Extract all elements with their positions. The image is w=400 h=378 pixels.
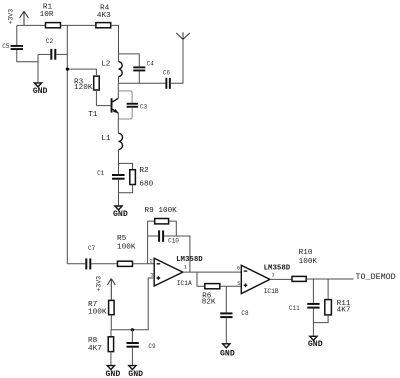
transistor T1 — [88, 98, 118, 119]
ground GND6 — [220, 344, 235, 359]
svg-text:GND: GND — [220, 350, 235, 359]
ground GND7 — [308, 336, 323, 349]
wire R6 to pin5 — [220, 285, 242, 287]
svg-text:C3: C3 — [140, 103, 148, 110]
svg-text:7: 7 — [272, 272, 275, 279]
svg-text:GND: GND — [308, 340, 323, 349]
wire R3 top leg — [67, 69, 96, 76]
capacitor C9 — [127, 330, 157, 366]
svg-text:100K: 100K — [88, 309, 107, 317]
node junction dot (R7/R8/C9/pin3) — [131, 328, 134, 331]
wire long vertical bus x=67.3 — [66, 25, 68, 263]
svg-text:R10: R10 — [299, 249, 313, 257]
svg-text:680: 680 — [139, 181, 153, 189]
feedback left leg — [147, 221, 149, 264]
svg-text:4K7: 4K7 — [88, 345, 102, 353]
wire pin3 branch — [111, 278, 154, 330]
svg-text:+3V3: +3V3 — [8, 9, 15, 25]
svg-text:TO_DEMOD: TO_DEMOD — [356, 272, 396, 282]
svg-text:2: 2 — [150, 257, 153, 264]
svg-text:C8: C8 — [241, 310, 249, 317]
svg-text:GND: GND — [128, 370, 143, 378]
svg-text:GND: GND — [33, 87, 48, 96]
capacitor C11 — [289, 279, 320, 336]
wire emitter down — [117, 113, 119, 133]
wire rail R1 to R4 — [61, 24, 96, 26]
svg-text:6: 6 — [237, 265, 240, 272]
svg-text:IC1A: IC1A — [177, 280, 192, 287]
svg-text:R8: R8 — [88, 337, 98, 345]
ground GND2 — [113, 206, 128, 219]
svg-text:C11: C11 — [289, 305, 300, 312]
svg-text:C1: C1 — [97, 170, 105, 177]
inductor L2 — [101, 54, 122, 83]
svg-text:C10: C10 — [168, 237, 179, 244]
svg-text:C4: C4 — [147, 61, 155, 68]
wire tank top to C4 — [119, 54, 140, 67]
wire IC1A out to IC1B pin6 — [183, 271, 242, 273]
resistor R1 — [40, 4, 61, 28]
wire C6 to antenna — [171, 39, 183, 83]
wire R6 left leg — [197, 272, 205, 286]
resistor R2 — [130, 167, 154, 189]
svg-text:C9: C9 — [148, 343, 156, 350]
resistor R3 — [74, 76, 99, 92]
svg-text:T1: T1 — [88, 111, 98, 119]
capacitor C1 — [97, 163, 125, 206]
ground GND5 — [128, 366, 143, 378]
resistor R9 — [145, 207, 178, 236]
wire R3 bottom leg — [95, 90, 97, 106]
svg-text:GND: GND — [113, 210, 128, 219]
resistor R5 — [117, 235, 136, 266]
wire top rail left — [17, 24, 46, 26]
svg-text:82K: 82K — [202, 298, 216, 306]
capacitor C8 — [220, 286, 249, 344]
wire gnd drop (C2/C5) — [37, 54, 39, 83]
resistor R10 — [292, 249, 317, 281]
svg-text:R9 100K: R9 100K — [145, 207, 178, 215]
resistor R4 — [96, 4, 111, 28]
wire output to TO_DEMOD — [306, 278, 353, 280]
wire IC1B out to R10 — [270, 278, 292, 280]
svg-text:LM358D: LM358D — [176, 256, 203, 264]
wire base — [96, 105, 110, 107]
svg-text:120K: 120K — [74, 84, 93, 92]
svg-text:4K3: 4K3 — [97, 12, 111, 20]
capacitor C6 — [163, 69, 171, 89]
resistor R6 — [202, 284, 220, 307]
svg-text:C6: C6 — [163, 69, 171, 76]
op-amp IC1B — [237, 265, 291, 295]
wire tank bottom to C6 — [119, 82, 166, 84]
svg-text:100K: 100K — [117, 244, 136, 252]
capacitor C3 (collector-emitter, grey branch) — [118, 91, 147, 119]
svg-text:L2: L2 — [101, 61, 111, 69]
node junction dot (bus/R3/C2) — [66, 68, 69, 71]
ground GND1 — [33, 83, 48, 96]
wire R2 top branch — [119, 163, 133, 169]
wire R5 to pin2 — [133, 263, 155, 265]
wire R7 bottom — [110, 315, 112, 330]
svg-text:R5: R5 — [117, 235, 127, 243]
capacitor C5 — [2, 25, 38, 61]
svg-text:C2: C2 — [46, 38, 54, 45]
svg-text:R2: R2 — [139, 167, 149, 175]
resistor R8 — [88, 330, 114, 366]
power +3V3 symbol (top left) — [8, 9, 29, 26]
antenna — [176, 32, 190, 39]
svg-text:C5: C5 — [2, 43, 10, 50]
capacitor C10 — [148, 230, 190, 272]
capacitor C2 — [38, 38, 67, 60]
capacitor C7 — [67, 245, 117, 269]
resistor R11 — [313, 279, 350, 323]
svg-text:C7: C7 — [88, 245, 96, 252]
svg-text:100K: 100K — [299, 258, 318, 266]
inductor L1 — [101, 133, 122, 163]
svg-text:LM358D: LM358D — [264, 265, 291, 273]
wire collector — [117, 83, 119, 98]
svg-text:+3V3: +3V3 — [96, 276, 103, 292]
svg-text:10R: 10R — [40, 11, 54, 19]
svg-text:4K7: 4K7 — [337, 307, 351, 315]
ground GND4 — [106, 366, 121, 378]
svg-text:GND: GND — [106, 370, 121, 378]
svg-text:5: 5 — [237, 280, 240, 287]
power +3V3 symbol (bias) — [96, 276, 116, 300]
wire R2 bottom leg — [119, 185, 133, 193]
capacitor C4 — [133, 61, 154, 84]
op-amp IC1A — [150, 256, 204, 287]
resistor R7 — [88, 300, 114, 316]
wire R4 to L2 top — [111, 25, 119, 54]
svg-text:L1: L1 — [101, 135, 111, 143]
svg-text:IC1B: IC1B — [264, 288, 279, 295]
